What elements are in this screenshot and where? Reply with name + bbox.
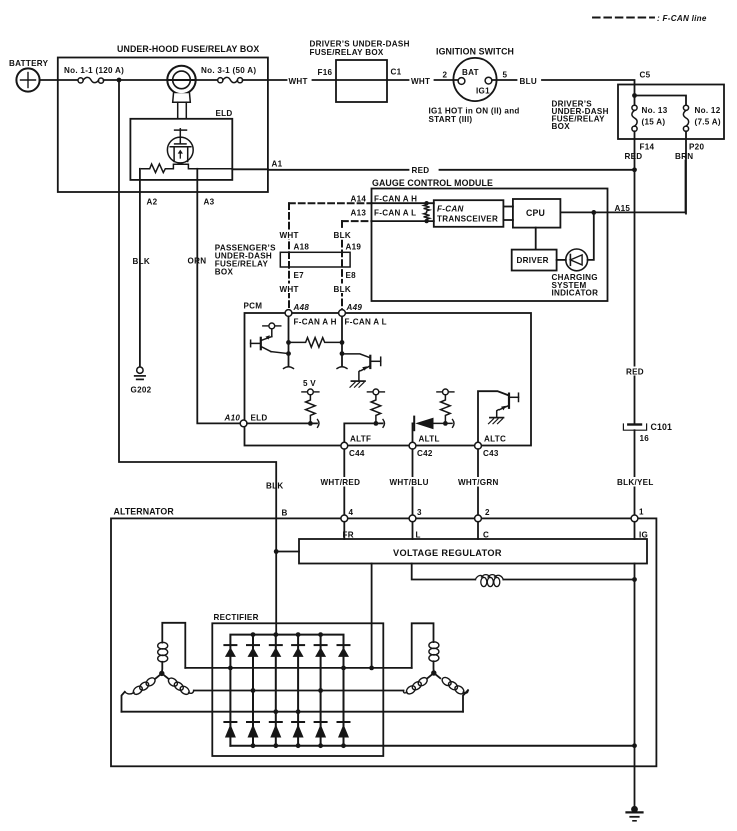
A10 terminal [240,420,247,427]
svg-text:WHT/RED: WHT/RED [321,478,361,487]
WHT/RED label [320,477,361,487]
phase wire 2 (middle coils) [194,690,404,692]
wire through F16 box [336,79,387,81]
svg-text:ALTL: ALTL [419,435,440,444]
wire C43 to terminal 2 [477,449,479,515]
svg-text:E8: E8 [346,271,357,280]
ALTL wire to C42 [412,423,414,442]
svg-text:BATTERY: BATTERY [9,59,49,68]
ALTF wire end squiggle [383,420,385,428]
svg-text:CPU: CPU [526,208,545,218]
svg-text:PCM: PCM [244,302,263,311]
A48 terminal [285,310,292,317]
svg-text:RED: RED [625,152,643,161]
svg-text:F-CAN A H: F-CAN A H [374,195,417,204]
A48 wire in PCM [288,316,290,366]
RED wire cont. [440,169,635,171]
passenger's under-dash fuse/relay box [280,252,350,267]
ALTC wire from C43 [478,391,509,442]
svg-text:A14: A14 [351,195,367,204]
svg-text:BAT: BAT [462,68,479,77]
F-CAN legend dashed line [593,17,654,19]
svg-text:B: B [282,509,288,518]
wire ignition to BLU [492,79,517,81]
svg-text:No. 3-1 (50 A): No. 3-1 (50 A) [201,66,256,75]
A3 post wire [196,169,198,192]
top diodes D2-D7 [224,645,349,657]
svg-text:C42: C42 [417,449,433,458]
junction dot C5 [632,93,637,98]
pull-up resistor R3 (ALTL) [441,395,451,424]
ALTF wire [344,423,382,442]
node dots A49 [340,340,345,345]
driver's under-dash fuse/relay box (right) [618,85,724,140]
svg-text:A1: A1 [272,160,283,169]
left stator coil (vertical) [158,642,168,662]
svg-text:BLK: BLK [334,285,351,294]
wire C44 to terminal 4 [343,449,345,515]
CPU to DRIVER wire [535,228,537,250]
rectifier top bus [230,635,343,668]
svg-text:ELD: ELD [251,414,268,423]
svg-text:C101: C101 [651,422,673,432]
A1 wire out of under-hood box [232,168,268,170]
BLK wire A2 to G202 [139,192,141,367]
branch to No.12 fuse [635,96,687,106]
ORN wire A3 to PCM A10 [197,192,240,423]
left stator coil (left arm) [125,676,157,696]
ELD sense wire [247,422,317,424]
ELD current sensor ring [167,66,195,118]
ELD node dot [308,421,313,426]
svg-text:BOX: BOX [215,268,234,277]
A49 terminal [339,310,346,317]
WHT label (below box) [279,284,302,295]
right stator coil (vertical) [429,642,439,662]
svg-text:F14: F14 [640,143,655,152]
right stator Y junction [427,661,440,678]
VR field wire [412,564,476,580]
svg-text:WHT: WHT [289,77,308,86]
svg-text:F-CAN: F-CAN [437,205,464,214]
svg-text:BRN: BRN [675,152,693,161]
terminal 4 [341,515,348,522]
junction dot indicator-A15 [591,210,596,215]
BLK/YEL wire down to terminal 1 [634,430,636,515]
svg-text:ALTF: ALTF [350,435,371,444]
phase wire 3 (bottom coils) [122,711,464,713]
A15 wire [560,211,685,213]
wire terminal 4 to VR [343,522,345,539]
svg-text:RED: RED [412,166,430,175]
svg-text:16: 16 [640,434,650,443]
ALTL 5V supply [437,389,454,395]
terminal 3 [409,515,416,522]
fuse No.13 (15A) [632,105,637,131]
F-CAN A L dashed wire [342,220,372,222]
BLK label (above box) [333,230,354,241]
node dot A14 line [424,201,428,205]
svg-text:WHT/BLU: WHT/BLU [390,478,429,487]
svg-text:(7.5 A): (7.5 A) [695,118,721,127]
ALTL wire end squiggle [453,420,455,428]
field coil L1 [475,575,503,587]
fuse No.12 (7.5A) [683,105,688,131]
svg-text:2: 2 [485,508,490,517]
PCM box [245,313,532,446]
svg-text:WHT: WHT [411,77,430,86]
svg-text:WHT: WHT [280,231,299,240]
C44 terminal [341,442,348,449]
diode D1 (ALTL) [413,417,453,431]
BRN wire to A15 [685,161,687,213]
F-CAN A H dashed vertical (WHT) [288,203,290,310]
svg-text:ALTC: ALTC [484,435,506,444]
ALTF node dot [374,421,379,426]
svg-text:C44: C44 [349,449,365,458]
svg-text:A2: A2 [147,198,158,207]
ground wire right side [634,580,636,807]
bottom diodes D8-D13 [224,722,349,738]
left stator coil (right arm) [167,676,194,696]
wire P20 down [685,131,687,213]
svg-text:3: 3 [417,508,422,517]
wire terminal 3 to VR [412,522,414,539]
junction dot at battery feed [117,78,122,83]
bottom bus node dots [251,743,256,748]
svg-text:UNDER-HOOD FUSE/RELAY BOX: UNDER-HOOD FUSE/RELAY BOX [117,44,259,54]
svg-text:G202: G202 [131,386,152,395]
wire WHT to ignition [435,79,459,81]
wire fuse1 to ring [104,79,168,81]
ELD wire end squiggle [318,420,320,428]
F-CAN A L wire inside module [372,220,434,222]
5V supply (ELD) [302,379,319,395]
svg-text:C43: C43 [483,449,499,458]
C42 terminal [409,442,416,449]
A49 wire in PCM [341,316,343,366]
svg-text:F16: F16 [318,68,333,77]
svg-text:A13: A13 [351,209,367,218]
svg-text:BLK/YEL: BLK/YEL [617,478,654,487]
phase wire 1 (top coils) [185,667,411,669]
VR to stator sense wire [371,564,373,668]
wire to No.13 fuse [634,96,636,106]
CPU box [513,199,561,228]
DRIVER box [512,250,557,271]
svg-text:(15 A): (15 A) [642,118,666,127]
ELD internal resistor and shelf [142,164,233,173]
B wire to VR stub [276,551,299,553]
svg-text:A49: A49 [346,303,363,312]
F-CAN A L dashed vertical (BLK) [341,221,343,310]
svg-text:No. 1-1 (120 A): No. 1-1 (120 A) [64,66,124,75]
svg-text:C5: C5 [640,71,651,80]
svg-text:A3: A3 [204,198,215,207]
right stator riser [412,623,434,668]
pull-up resistor R2 (ALTF) [371,395,381,424]
svg-text:IG1: IG1 [476,87,490,96]
in-line connector C101 [623,424,646,430]
BLK wire from junction down to alternator B [119,82,276,635]
wire terminal 1 to VR [634,522,636,539]
wire BLU to C5 [542,80,635,96]
ground symbol (alternator) [627,806,643,821]
CAN termination resistor (PCM) [289,338,343,348]
fuse No.3-1 (50 A) [218,77,243,82]
terminal 1 [631,515,638,522]
field wire to IG line [503,579,634,581]
svg-text:No. 13: No. 13 [642,106,668,115]
ground (Q2 emitter) [350,381,365,387]
RED wire down right side [634,170,636,424]
ground G202 [135,367,145,379]
svg-text:BLK: BLK [133,257,150,266]
svg-text:: F-CAN line: : F-CAN line [657,14,707,23]
bus transceiver-CPU [503,206,513,208]
svg-text:WHT/GRN: WHT/GRN [458,478,499,487]
svg-text:GAUGE CONTROL MODULE: GAUGE CONTROL MODULE [372,178,493,188]
rectifier bottom bus [230,745,634,747]
svg-text:TRANSCEIVER: TRANSCEIVER [437,215,498,224]
junction dot RED [632,167,637,172]
top bus node dots [251,632,256,637]
svg-text:ELD: ELD [216,109,233,118]
ground (Q3 emitter) [489,418,504,424]
WHT label (above box) [279,230,302,241]
pull-up resistor R1 (ELD) [306,395,316,424]
fuse No.1-1 (120 A) [78,77,104,83]
svg-text:P20: P20 [689,143,704,152]
columns lower segments to bottom bus [229,668,231,746]
F-CAN transceiver box [434,200,504,227]
wire C1 to WHT [387,79,409,81]
termination resistors [424,203,430,221]
svg-text:START (III): START (III) [429,115,473,124]
A48 wire end squiggle [284,367,294,369]
DRIVER to indicator wire [557,259,566,261]
C43 terminal [475,442,482,449]
driver's under-dash fuse/relay box (F16-C1) [336,60,387,102]
indicator to A15 wire [588,212,594,260]
junction dot field-IG [632,577,637,582]
wire to WHT label [243,79,287,81]
svg-text:BLU: BLU [520,77,537,86]
wire terminal 2 to VR [477,522,479,539]
svg-text:A15: A15 [615,204,631,213]
svg-text:A10: A10 [224,414,241,423]
svg-text:IGNITION SWITCH: IGNITION SWITCH [436,47,514,57]
RED wire A1 to right [268,169,409,171]
transistor Q2 (CAN L driver) [342,354,381,381]
wire ring to fuse 3-1 [196,79,218,81]
svg-text:No. 12: No. 12 [695,106,721,115]
gauge control module box [372,189,608,302]
svg-text:2: 2 [443,71,448,80]
F-CAN A H dashed wire [289,202,372,204]
battery [16,68,39,91]
charging system indicator [566,249,588,271]
wire C42 to terminal 3 [412,449,414,515]
left stator left arm to phase 3 [122,692,125,712]
svg-text:5: 5 [503,71,508,80]
BLK/YEL label [617,477,655,487]
rectifier columns 2-5 upper segments [252,635,254,691]
svg-text:VOLTAGE REGULATOR: VOLTAGE REGULATOR [393,548,502,558]
node dot A13 line [424,219,428,223]
phase 1 node dots [228,666,233,671]
svg-text:DRIVER: DRIVER [517,256,549,265]
left stator riser [162,623,185,668]
under-hood fuse/relay box [58,58,268,193]
WHT/BLU label [389,477,430,487]
ALTL node dot [443,421,448,426]
svg-text:C1: C1 [391,68,402,77]
svg-text:ALTERNATOR: ALTERNATOR [114,507,175,517]
svg-text:FUSE/RELAY BOX: FUSE/RELAY BOX [310,48,384,57]
svg-text:L: L [416,530,421,539]
svg-text:A19: A19 [346,243,362,252]
transistor Q3 (ALTC) [497,393,519,417]
svg-text:A48: A48 [293,303,310,312]
svg-text:C: C [483,530,489,539]
svg-text:F-CAN A L: F-CAN A L [374,209,416,218]
phase 3 node dots [273,709,278,714]
svg-text:WHT: WHT [280,285,299,294]
svg-text:RED: RED [626,368,644,377]
wire WHT to F16 box [313,79,337,81]
RED label (right column, white bg) [625,367,645,377]
right stator right arm to phase 3 [463,690,468,712]
right stator coil (left arm) [403,676,428,696]
phase 2 node dots [251,688,256,693]
svg-text:5 V: 5 V [303,379,316,388]
ELD internal MOSFET [167,129,193,163]
right stator coil (right arm) [441,676,468,696]
voltage regulator box [299,539,647,564]
svg-text:BOX: BOX [552,122,571,131]
A49 wire end squiggle [337,367,347,369]
A2 post wire [139,169,141,192]
svg-text:F-CAN A L: F-CAN A L [345,318,387,327]
svg-text:E7: E7 [294,271,305,280]
IG wire below VR [634,564,636,580]
svg-text:IG: IG [639,530,648,539]
svg-text:INDICATOR: INDICATOR [552,289,599,298]
node dots A48 [286,340,291,345]
svg-text:BLK: BLK [334,231,351,240]
junction dot B-VR [274,549,279,554]
alternator box [111,518,656,766]
wire F14 down [634,131,636,170]
svg-text:4: 4 [349,508,354,517]
left stator Y junction [155,662,168,679]
svg-text:1: 1 [639,508,644,517]
svg-text:A18: A18 [294,243,310,252]
svg-text:F-CAN A H: F-CAN A H [294,318,337,327]
svg-text:BLK: BLK [266,482,283,491]
svg-text:RECTIFIER: RECTIFIER [214,613,259,622]
terminal 2 [475,515,482,522]
F-CAN A H wire inside module [372,202,434,204]
ignition switch [453,58,496,101]
rectifier box [212,623,383,756]
ELD box [130,119,232,180]
BLK label (below box) [333,284,354,295]
transistor Q1 (CAN H driver) [251,323,289,354]
svg-text:ORN: ORN [188,257,207,266]
WHT/GRN label [458,477,500,487]
wire battery to fuse box [40,79,78,81]
ALTF 5V supply [367,389,384,395]
